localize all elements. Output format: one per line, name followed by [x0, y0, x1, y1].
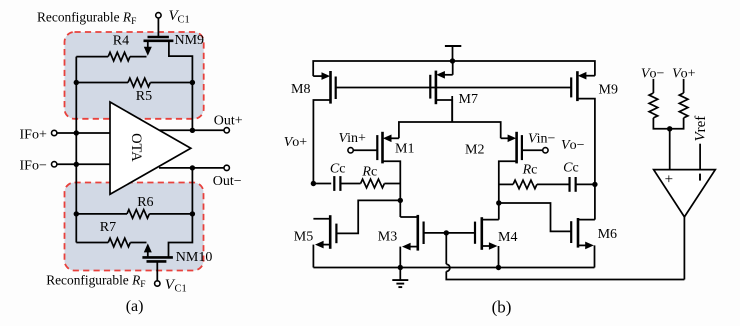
svg-text:M4: M4: [498, 230, 517, 245]
svg-text:M6: M6: [598, 227, 617, 242]
svg-text:(a): (a): [126, 298, 144, 315]
svg-text:R7: R7: [100, 220, 116, 235]
svg-text:Reconfigurable RF: Reconfigurable RF: [37, 9, 136, 27]
svg-text:R4: R4: [113, 33, 129, 48]
svg-text:Cc: Cc: [330, 161, 346, 176]
svg-text:Vin+: Vin+: [339, 131, 366, 146]
svg-text:Vref: Vref: [693, 116, 709, 142]
svg-text:Vo−: Vo−: [561, 138, 585, 153]
svg-text:M2: M2: [465, 143, 484, 158]
svg-text:Rc: Rc: [522, 163, 538, 178]
svg-text:M3: M3: [378, 229, 397, 244]
svg-text:IFo−: IFo−: [20, 159, 47, 174]
svg-text:M8: M8: [291, 82, 310, 97]
svg-text:NM9: NM9: [175, 33, 205, 48]
svg-text:IFo+: IFo+: [20, 127, 47, 142]
svg-text:Reconfigurable RF: Reconfigurable RF: [46, 272, 145, 290]
svg-text:Out+: Out+: [214, 113, 243, 128]
svg-text:Rc: Rc: [361, 164, 377, 179]
svg-text:R6: R6: [137, 195, 153, 210]
svg-text:Vo+: Vo+: [672, 67, 696, 82]
svg-text:NM10: NM10: [176, 250, 213, 265]
svg-text:Vo−: Vo−: [641, 67, 665, 82]
svg-text:Vin−: Vin−: [528, 132, 555, 147]
svg-text:R5: R5: [136, 89, 152, 104]
svg-text:C1: C1: [178, 15, 190, 26]
svg-text:M1: M1: [395, 141, 414, 156]
svg-text:OTA: OTA: [128, 133, 144, 162]
svg-text:Out−: Out−: [213, 174, 242, 189]
svg-text:M5: M5: [294, 229, 313, 244]
svg-text:M7: M7: [459, 92, 478, 107]
svg-text:+: +: [665, 172, 673, 188]
svg-text:Vo+: Vo+: [284, 135, 308, 150]
svg-text:(b): (b): [492, 298, 512, 317]
svg-text:Cc: Cc: [563, 161, 579, 176]
svg-text:M9: M9: [599, 82, 618, 97]
svg-text:C1: C1: [175, 283, 187, 294]
